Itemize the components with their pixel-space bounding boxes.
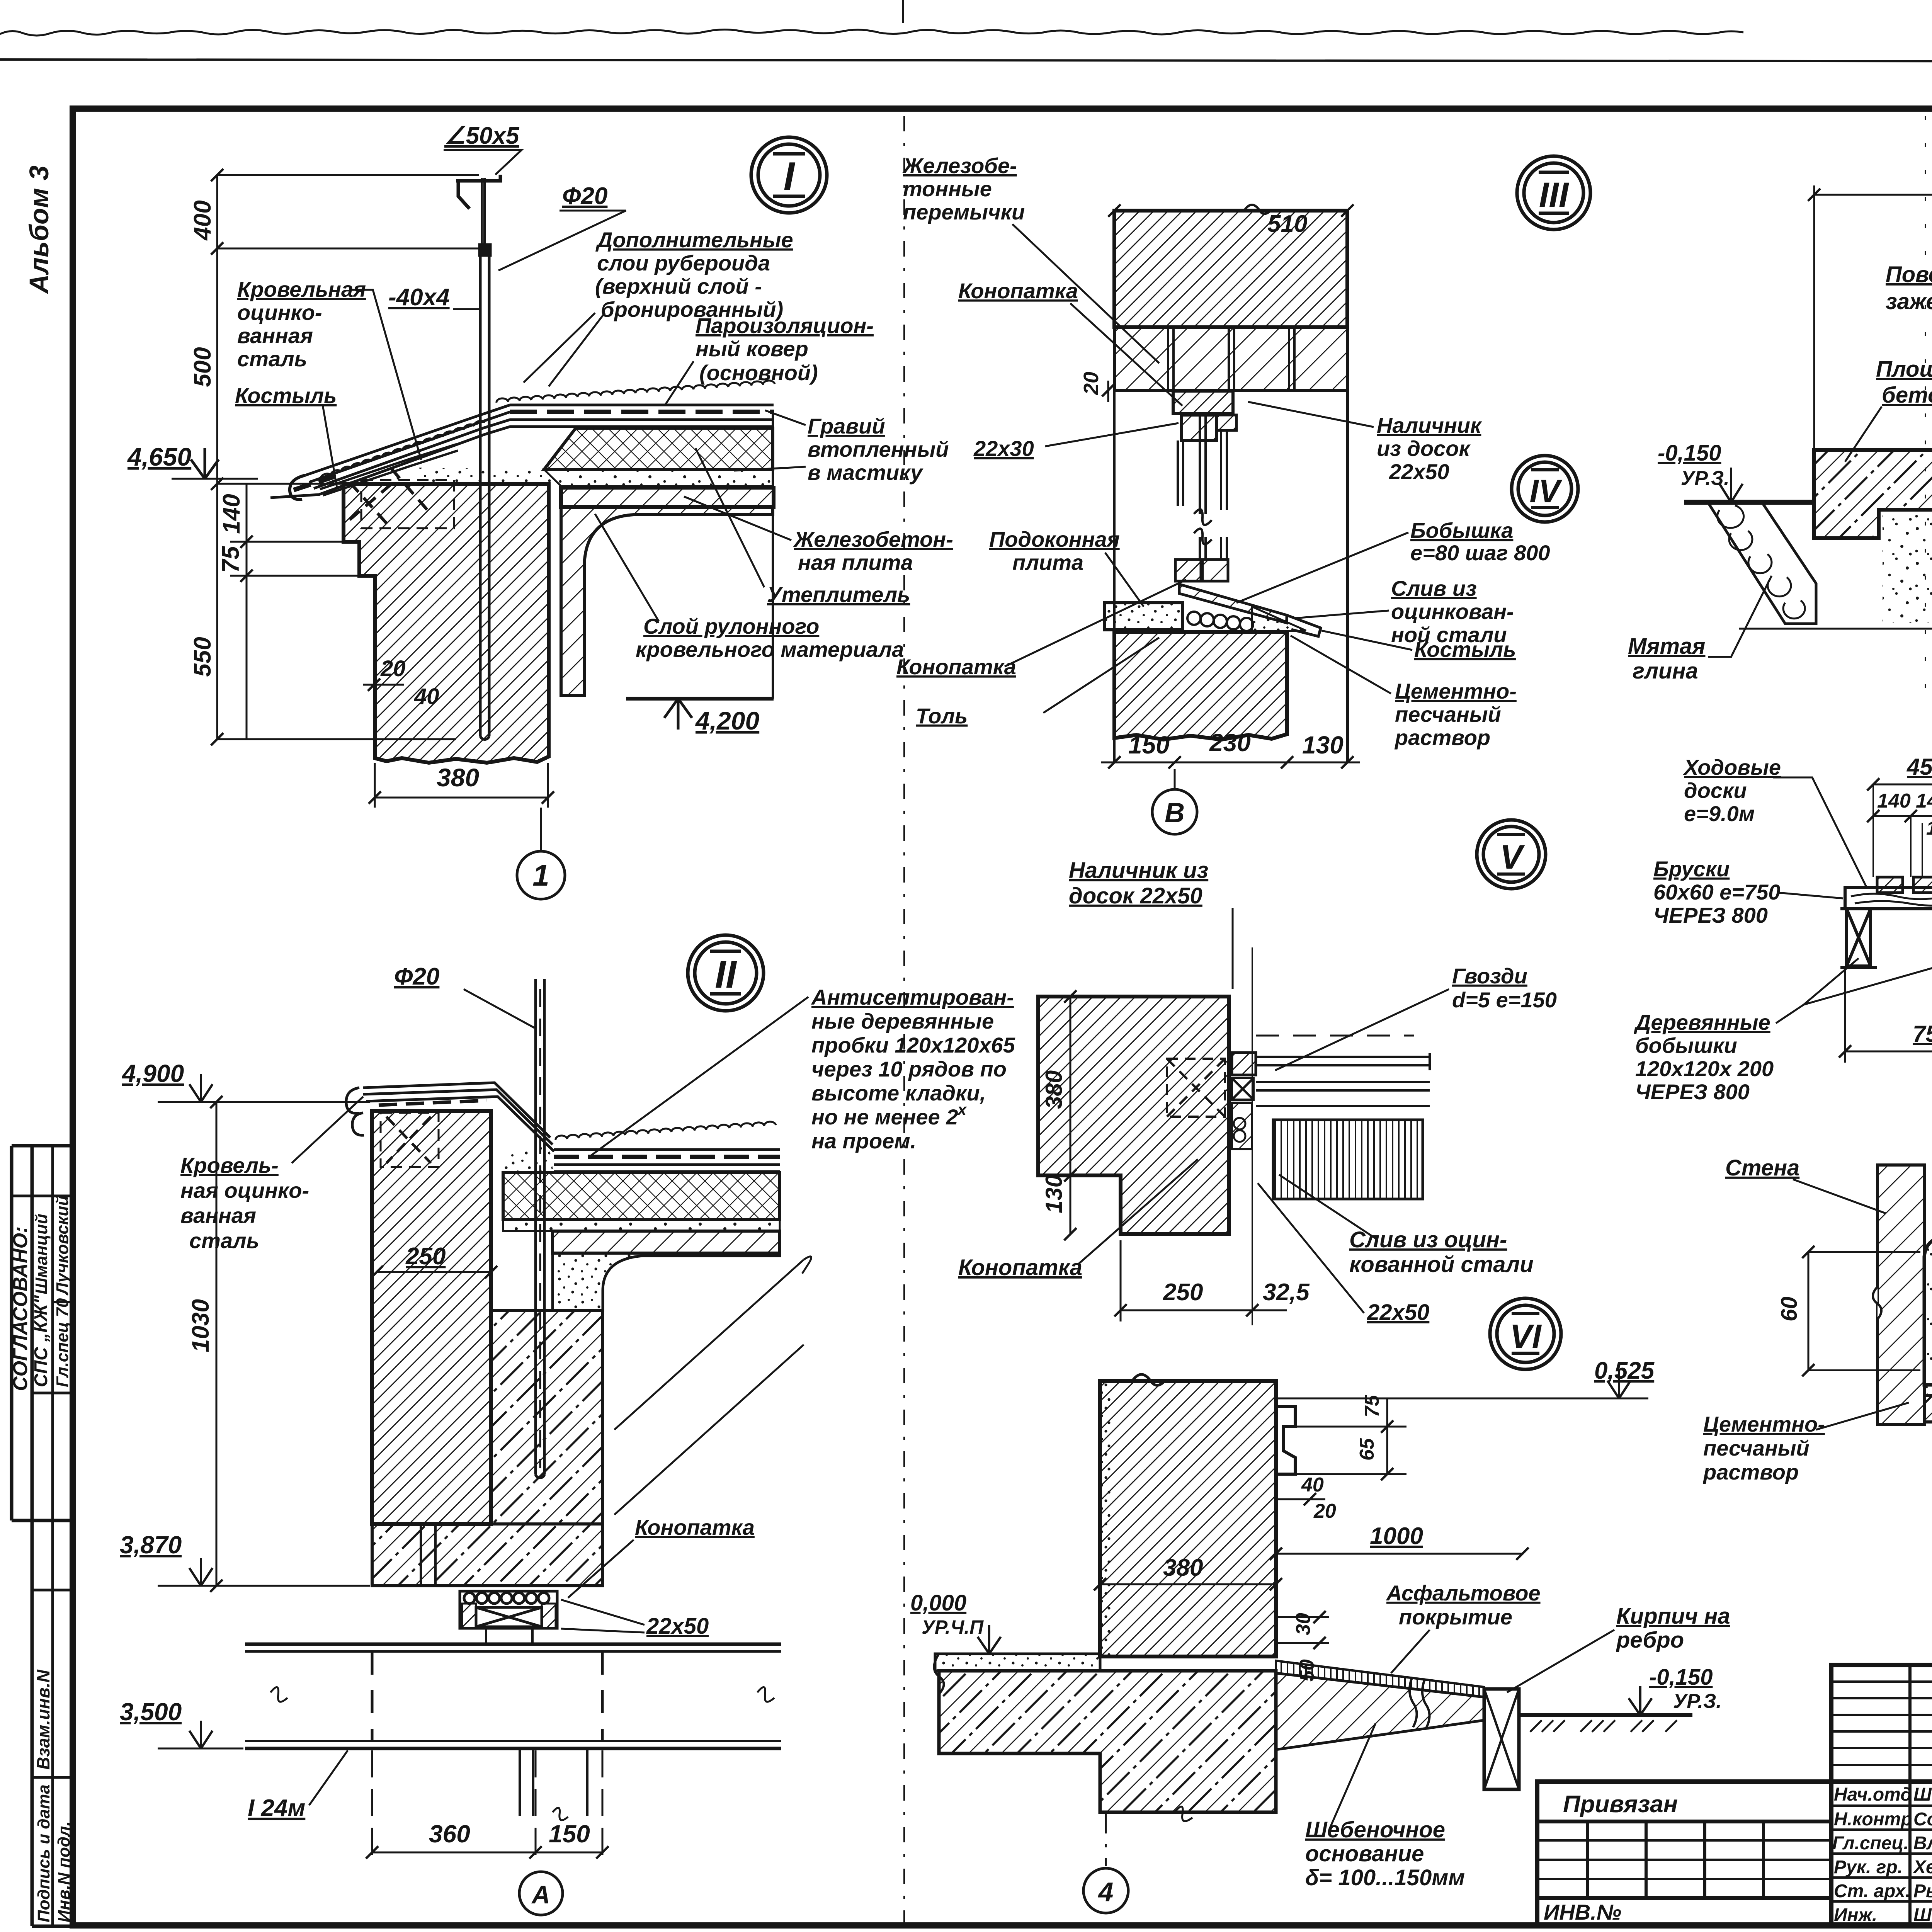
centerline (1252, 947, 1253, 1325)
svg-text:Железобе-: Железобе- (902, 153, 1017, 178)
svg-text:Подоконная: Подоконная (989, 527, 1120, 551)
svg-text:раствор: раствор (1702, 1460, 1799, 1484)
svg-text:380: 380 (1163, 1554, 1203, 1581)
sheet metal cap (346, 1083, 554, 1151)
svg-text:d=5 е=150: d=5 е=150 (1452, 988, 1557, 1012)
svg-text:Бруски: Бруски (1653, 857, 1730, 881)
slab haunch (561, 507, 773, 696)
cement mortar wedge (1252, 607, 1306, 632)
left assembly: boards band (1845, 888, 1932, 909)
window sill slab (stipple) (1104, 603, 1182, 630)
svg-text:ванная: ванная (237, 323, 313, 348)
svg-text:-40x4: -40x4 (388, 284, 450, 311)
svg-text:раствор: раствор (1394, 725, 1490, 750)
svg-text:-0,150: -0,150 (1658, 440, 1721, 466)
labels left (235, 277, 366, 408)
svg-text:510: 510 (1267, 211, 1307, 237)
upper wall (1114, 211, 1347, 327)
svg-text:Нач.отд: Нач.отд (1834, 1784, 1912, 1805)
asphalt apron slope (1276, 1661, 1484, 1697)
torn paper top wavy edge (0, 29, 1743, 36)
svg-text:Слив из: Слив из (1391, 576, 1477, 600)
prosloika (1924, 1385, 1932, 1396)
svg-text:Инж.: Инж. (1834, 1905, 1877, 1925)
360/150 dim (372, 1852, 602, 1854)
svg-text:Костыль: Костыль (1414, 637, 1516, 662)
svg-text:(верхний слой -: (верхний слой - (595, 274, 762, 298)
svg-text:СПС „КЖ": СПС „КЖ" (31, 1295, 51, 1387)
svg-text:доски: доски (1684, 778, 1747, 803)
rubble base (1276, 1673, 1484, 1750)
cap profile right (1276, 1406, 1295, 1474)
krovelnaya label (180, 1153, 309, 1253)
svg-text:1000: 1000 (1370, 1523, 1423, 1549)
angle at top (456, 175, 500, 209)
dims (1070, 997, 1071, 1234)
1500 dim (1814, 194, 1932, 196)
svg-text:15: 15 (1926, 817, 1932, 839)
svg-text:130: 130 (1302, 731, 1344, 759)
lintel band (1114, 327, 1347, 390)
svg-text:∠50x5: ∠50x5 (444, 122, 520, 149)
dims (1873, 784, 1932, 786)
caulk box (460, 1591, 557, 1644)
svg-text:ные деревянные: ные деревянные (811, 1009, 994, 1033)
svg-text:Цементно-: Цементно- (1395, 679, 1517, 703)
svg-text:Цементно-: Цементно- (1703, 1412, 1825, 1436)
1030 vertical dim (216, 1102, 218, 1586)
svg-text:пробки 120x120x65: пробки 120x120x65 (811, 1033, 1015, 1057)
svg-text:Наличник: Наличник (1377, 413, 1482, 437)
svg-text:Конопатка: Конопатка (958, 279, 1078, 303)
svg-text:Наличник из: Наличник из (1069, 858, 1208, 883)
svg-text:65: 65 (1356, 1438, 1378, 1461)
svg-text:покрытие: покрытие (1399, 1605, 1512, 1629)
svg-text:Кровель-: Кровель- (180, 1153, 279, 1177)
svg-text:60x60 е=750: 60x60 е=750 (1653, 880, 1781, 904)
svg-text:75: 75 (218, 546, 244, 573)
svg-text:втопленный: втопленный (808, 437, 949, 461)
svg-text:Поверхность: Поверхность (1886, 262, 1932, 287)
svg-text:δ= 100...150мм: δ= 100...150мм (1305, 1865, 1465, 1890)
svg-text:Привязан: Привязан (1563, 1791, 1678, 1818)
svg-text:Гл.спец 70: Гл.спец 70 (53, 1298, 72, 1387)
roofing slope left of pipe (270, 405, 510, 500)
svg-text:на проем.: на проем. (811, 1129, 916, 1153)
bottom dim chain (1101, 762, 1360, 764)
svg-text:230: 230 (1209, 729, 1251, 757)
svg-text:22x50: 22x50 (646, 1614, 709, 1639)
svg-text:ребро: ребро (1616, 1628, 1684, 1653)
svg-text:е=9.0м: е=9.0м (1684, 801, 1755, 826)
svg-text:Утеплитель: Утеплитель (767, 582, 910, 607)
lower wall (1114, 632, 1287, 740)
svg-text:50: 50 (1296, 1659, 1318, 1682)
svg-text:Гл.спец.: Гл.спец. (1832, 1833, 1909, 1854)
svg-text:В: В (1165, 798, 1185, 828)
floor slab (1924, 1396, 1932, 1422)
roman II (688, 935, 764, 1011)
roman I (751, 137, 827, 213)
svg-text:Лучковский: Лучковский (53, 1196, 72, 1296)
svg-text:Инв.N подл.: Инв.N подл. (54, 1821, 73, 1922)
window frame plan lines (1256, 1036, 1430, 1106)
svg-text:Толь: Толь (916, 704, 968, 728)
svg-text:Хесина: Хесина (1912, 1857, 1932, 1878)
circle A (519, 1872, 563, 1915)
fold mark top (902, 0, 904, 23)
svg-text:3,500: 3,500 (120, 1698, 182, 1726)
svg-text:Мятая: Мятая (1628, 634, 1705, 659)
svg-text:Кровельная: Кровельная (237, 277, 366, 301)
wall (1100, 1381, 1276, 1656)
insulation (503, 1172, 780, 1219)
svg-text:4,900: 4,900 (121, 1060, 184, 1087)
svg-text:Конопатка: Конопатка (635, 1515, 755, 1539)
svg-text:Ст. арх.: Ст. арх. (1834, 1881, 1910, 1901)
roman V (1477, 820, 1546, 889)
svg-text:140: 140 (1916, 790, 1932, 812)
roofing lines (554, 1150, 780, 1172)
svg-text:оцинкован-: оцинкован- (1391, 599, 1514, 624)
metal cap sheet over wall top with dashed anchors (320, 444, 458, 528)
clay wedge (1708, 502, 1816, 624)
labels right (1377, 413, 1550, 750)
ground line left (1684, 500, 1816, 505)
svg-text:22x30: 22x30 (973, 436, 1034, 461)
svg-text:основание: основание (1305, 1841, 1424, 1866)
foundation (939, 1671, 1276, 1812)
svg-text:20: 20 (380, 656, 406, 681)
svg-text:22x50: 22x50 (1367, 1300, 1429, 1325)
labels right (595, 228, 953, 662)
window frame verticals (1178, 413, 1227, 560)
svg-text:Шебеночное: Шебеночное (1305, 1817, 1445, 1842)
svg-text:22x50: 22x50 (1389, 459, 1449, 484)
svg-text:Шевлякова: Шевлякова (1913, 1905, 1932, 1925)
floor beams (245, 1644, 781, 1820)
svg-text:е=80 шаг 800: е=80 шаг 800 (1410, 541, 1550, 565)
small dims right of profile (1386, 1398, 1388, 1474)
svg-text:-0,150: -0,150 (1649, 1665, 1713, 1690)
ground line right (1519, 1713, 1692, 1717)
svg-text:Шейко: Шейко (1913, 1784, 1932, 1805)
svg-text:песчаный: песчаный (1395, 702, 1501, 726)
lower course (372, 1524, 602, 1586)
top paper edge line (0, 60, 1932, 62)
svg-text:Площадка из: Площадка из (1876, 357, 1932, 382)
svg-text:Асфальтовое: Асфальтовое (1386, 1581, 1541, 1605)
svg-text:140: 140 (218, 494, 245, 534)
circle 1 (517, 851, 565, 899)
svg-text:Стена: Стена (1725, 1155, 1799, 1180)
svg-text:Деревянные: Деревянные (1634, 1010, 1770, 1034)
roman VI (1490, 1298, 1561, 1369)
svg-text:120x120x 200: 120x120x 200 (1635, 1056, 1774, 1081)
plinth stipple body (1924, 1236, 1932, 1385)
svg-text:Н.контр: Н.контр (1834, 1809, 1912, 1830)
exterior face line (1346, 211, 1349, 762)
roofing layers right flat (510, 405, 774, 427)
svg-text:250: 250 (1163, 1279, 1203, 1306)
svg-text:4,650: 4,650 (127, 442, 191, 471)
upper table (1831, 1665, 1932, 1782)
svg-text:3,870: 3,870 (120, 1531, 182, 1559)
svg-text:500: 500 (189, 347, 216, 387)
svg-text:380: 380 (437, 763, 479, 792)
svg-text:Ф20: Ф20 (562, 183, 607, 209)
svg-text:(основной): (основной) (699, 361, 818, 385)
hooked drip end (290, 475, 305, 500)
roman III (1517, 156, 1590, 230)
plug dashed (1167, 1059, 1225, 1117)
svg-text:Бобышка: Бобышка (1410, 518, 1513, 543)
svg-text:Гравий: Гравий (808, 414, 885, 438)
bobyshki blocks on top (1877, 877, 1903, 893)
svg-text:75: 75 (1361, 1395, 1383, 1417)
250 dim (377, 1271, 491, 1273)
springs (caulking) (1187, 612, 1253, 631)
svg-text:380: 380 (1041, 1070, 1067, 1109)
svg-text:перемычки: перемычки (903, 200, 1025, 224)
svg-text:сталь: сталь (189, 1228, 259, 1253)
mortar stipple under insulation (544, 469, 773, 486)
circle B (1152, 789, 1197, 834)
svg-text:Власенко: Власенко (1913, 1833, 1932, 1854)
mortar wedge near bend (502, 1143, 553, 1172)
svg-text:140: 140 (1877, 790, 1911, 812)
rc slab (561, 488, 774, 507)
svg-text:Конопатка: Конопатка (958, 1255, 1082, 1280)
svg-text:ная плита: ная плита (798, 550, 913, 575)
svg-text:песчаный: песчаный (1703, 1436, 1810, 1460)
svg-text:тонные: тонные (903, 177, 992, 201)
svg-text:250: 250 (405, 1243, 446, 1270)
floor slab stipple (935, 1654, 1100, 1671)
svg-text:сталь: сталь (237, 347, 307, 371)
svg-text:Пароизоляцион-: Пароизоляцион- (696, 313, 874, 338)
antiseptic text block (811, 985, 1015, 1153)
svg-text:0,525: 0,525 (1594, 1357, 1655, 1384)
gravel row (556, 1122, 776, 1140)
L wall (1038, 997, 1229, 1234)
1000 dim (1276, 1553, 1522, 1555)
interior bottom line + 4,200 level (626, 697, 774, 701)
dashed X brace on wall top (381, 1113, 439, 1167)
roman IV (1512, 456, 1578, 522)
svg-text:досок 22x50: досок 22x50 (1069, 883, 1202, 908)
svg-text:II: II (715, 953, 737, 996)
apron slab (1814, 450, 1932, 538)
svg-text:ный ковер: ный ковер (696, 337, 808, 361)
svg-text:ИНВ.№: ИНВ.№ (1544, 1900, 1621, 1924)
svg-text:150: 150 (1128, 731, 1170, 759)
svg-text:Взам.инв.N: Взам.инв.N (33, 1669, 53, 1770)
svg-text:4: 4 (1098, 1877, 1114, 1907)
svg-text:1030: 1030 (187, 1299, 214, 1352)
svg-text:360: 360 (429, 1820, 470, 1848)
svg-text:20: 20 (1080, 372, 1103, 395)
svg-text:УР.З.: УР.З. (1673, 1690, 1722, 1713)
vertical hatch block (1273, 1120, 1423, 1199)
svg-text:кровельного материала: кровельного материала (636, 637, 904, 662)
380 dim (1100, 1583, 1276, 1585)
svg-text:Антисептирован-: Антисептирован- (811, 985, 1014, 1009)
small dims 20/40 (363, 684, 404, 686)
interior break diagonals (614, 1260, 804, 1430)
brick on edge (1484, 1689, 1519, 1789)
main table (1537, 1782, 1932, 1926)
main wall dense (372, 1111, 491, 1524)
svg-text:плита: плита (1012, 550, 1083, 575)
svg-text:IV: IV (1529, 473, 1562, 509)
svg-text:1: 1 (532, 858, 549, 892)
svg-text:0,000: 0,000 (910, 1590, 966, 1616)
svg-text:4,200: 4,200 (695, 706, 759, 735)
svg-text:УР.Ч.П: УР.Ч.П (922, 1616, 984, 1638)
posts (1840, 909, 1932, 968)
svg-text:Слив из оцин-: Слив из оцин- (1349, 1227, 1507, 1252)
svg-text:Ф20: Ф20 (394, 963, 439, 990)
svg-text:бобышки: бобышки (1635, 1033, 1737, 1058)
svg-text:х: х (957, 1100, 967, 1119)
gravel stones along slope and flat (320, 381, 775, 479)
svg-text:VI: VI (1510, 1318, 1542, 1355)
centre fold dash line (903, 116, 905, 1924)
svg-text:оцинко-: оцинко- (237, 300, 322, 325)
svg-text:60: 60 (1777, 1296, 1802, 1321)
svg-text:I: I (784, 154, 796, 199)
svg-text:Подпись и дата: Подпись и дата (34, 1784, 53, 1922)
circle 4 (1083, 1868, 1128, 1913)
dimension chains left (172, 175, 479, 739)
svg-text:СОГЛАСОВАНО:: СОГЛАСОВАНО: (9, 1226, 32, 1391)
svg-text:через 10 рядов по: через 10 рядов по (811, 1057, 1007, 1081)
svg-text:Сокольская: Сокольская (1913, 1809, 1932, 1830)
svg-text:А: А (531, 1880, 550, 1909)
svg-text:зажелезнить: зажелезнить (1886, 289, 1932, 314)
380 bottom dim (375, 797, 548, 799)
svg-text:ЧЕРЕЗ 800: ЧЕРЕЗ 800 (1653, 903, 1768, 927)
svg-text:Ходовые: Ходовые (1683, 755, 1781, 779)
svg-text:Дополнительные: Дополнительные (595, 228, 793, 252)
svg-text:ная оцинко-: ная оцинко- (180, 1178, 309, 1202)
svg-text:750: 750 (1913, 1021, 1932, 1047)
svg-text:20: 20 (1313, 1500, 1336, 1522)
svg-text:550: 550 (189, 637, 216, 677)
svg-text:Альбом 3: Альбом 3 (24, 165, 54, 294)
svg-text:слои рубероида: слои рубероида (597, 251, 770, 275)
svg-text:ванная: ванная (180, 1203, 256, 1228)
svg-text:Шманций: Шманций (32, 1214, 51, 1294)
svg-text:Кирпич на: Кирпич на (1616, 1604, 1730, 1629)
svg-text:450: 450 (1906, 754, 1932, 780)
svg-text:из досок: из досок (1377, 436, 1471, 461)
insulation cross hatch (544, 428, 773, 469)
svg-text:Рыбалова: Рыбалова (1913, 1881, 1932, 1901)
sand stipple (1883, 513, 1932, 623)
sill assembly (1175, 560, 1201, 581)
casing blocks under lintel (1173, 391, 1233, 413)
parapet brick wall (344, 484, 549, 763)
svg-text:40: 40 (414, 684, 439, 709)
svg-text:в мастику: в мастику (808, 460, 923, 485)
svg-text:III: III (1539, 175, 1570, 215)
svg-text:400: 400 (189, 200, 216, 241)
svg-text:но не менее 2: но не менее 2 (811, 1105, 958, 1129)
svg-text:ЧЕРЕЗ 800: ЧЕРЕЗ 800 (1635, 1080, 1750, 1104)
mortar wedge between slope and insulation (412, 468, 561, 486)
frame assembly (1232, 1053, 1256, 1075)
svg-text:бетона класса В15: бетона класса В15 (1882, 383, 1932, 408)
svg-text:Железобетон-: Железобетон- (793, 527, 953, 551)
svg-text:Гвозди: Гвозди (1452, 964, 1527, 988)
svg-text:Рук. гр.: Рук. гр. (1834, 1857, 1903, 1878)
sill board slope with metal flashing (1179, 584, 1287, 623)
labels left (896, 153, 1120, 728)
slab + haunch (553, 1231, 780, 1253)
svg-text:V: V (1500, 838, 1525, 876)
svg-text:кованной стали: кованной стали (1349, 1252, 1534, 1277)
anchor pipe (456, 175, 500, 740)
svg-text:Конопатка: Конопатка (896, 655, 1016, 679)
svg-text:40: 40 (1301, 1474, 1324, 1496)
svg-text:Слой рулонного: Слой рулонного (643, 614, 819, 638)
anchor pipe (534, 979, 537, 1475)
svg-text:глина: глина (1633, 658, 1698, 684)
right concrete block (491, 1310, 602, 1524)
mortar band (503, 1219, 780, 1231)
svg-text:I 24м: I 24м (248, 1795, 305, 1821)
svg-text:150: 150 (549, 1820, 590, 1848)
svg-text:130: 130 (1041, 1175, 1067, 1213)
svg-text:32,5: 32,5 (1263, 1279, 1310, 1306)
